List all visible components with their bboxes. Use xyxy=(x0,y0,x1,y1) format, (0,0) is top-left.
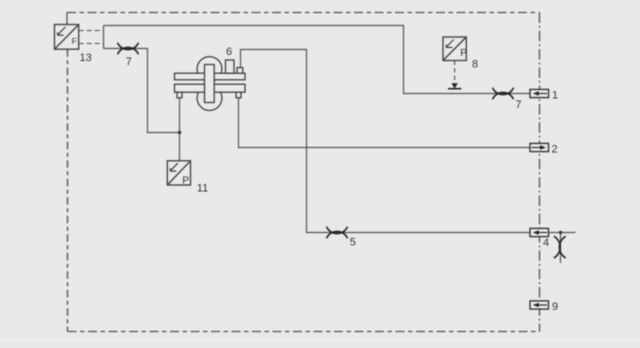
pressure sensor P 8 xyxy=(443,37,466,61)
machine boundary right (dash-dot) xyxy=(539,13,541,332)
svg-text:P: P xyxy=(460,48,467,59)
wire: blow-off drop xyxy=(560,233,562,264)
roots blower 6 (pump group) xyxy=(175,57,246,111)
svg-text:13: 13 xyxy=(80,52,92,64)
foot right xyxy=(236,92,241,98)
piston block xyxy=(205,65,215,103)
casing bar upper xyxy=(175,73,246,80)
throttle valve 7 (right) xyxy=(493,88,514,100)
wire: pump right port down and to port 2 xyxy=(239,98,531,148)
wire: top run to right drop and port 1 xyxy=(104,26,532,94)
outlet stub xyxy=(237,68,243,74)
measuring tap arrow xyxy=(451,83,457,88)
junction port 4 tail xyxy=(559,231,562,234)
port 1 (flange) xyxy=(530,89,549,97)
port stub 6 xyxy=(226,60,235,73)
port 2 (flange) xyxy=(530,143,549,151)
wire: lower run through valve 7 xyxy=(104,49,180,133)
svg-text:1: 1 xyxy=(552,89,558,101)
wire: pump left port down to sensor 11 xyxy=(179,98,181,161)
svg-text:F: F xyxy=(72,36,77,46)
pressure sensor P 11 xyxy=(167,161,190,185)
svg-text:2: 2 xyxy=(552,144,558,156)
flow sensor F 13 xyxy=(55,25,79,50)
throttle valve 7 (left) xyxy=(118,43,139,55)
measuring tap tick xyxy=(448,88,461,90)
wire: port 4 tail to blow-off xyxy=(549,232,576,234)
enclosure border top (dashed) xyxy=(67,12,540,14)
svg-text:7: 7 xyxy=(515,99,521,111)
svg-text:5: 5 xyxy=(350,236,356,248)
svg-text:9: 9 xyxy=(552,301,558,313)
rotor circle bottom xyxy=(197,86,222,111)
signal line sensor13 upper (dashed) xyxy=(79,30,103,32)
svg-text:6: 6 xyxy=(226,46,232,58)
foot left xyxy=(177,92,182,98)
enclosure border bottom (dashed) xyxy=(68,331,540,333)
svg-text:11: 11 xyxy=(197,182,208,194)
wire: suction header end cap xyxy=(103,26,105,49)
signal line sensor13 lower (dashed) xyxy=(79,43,103,45)
throttle valve 5 xyxy=(327,227,348,239)
wire: stub from border to sensor 13 xyxy=(66,13,68,25)
enclosure border left (dashed) xyxy=(67,49,69,331)
svg-text:4: 4 xyxy=(543,237,549,249)
port 4 (flange) xyxy=(530,228,549,236)
rotor circle top xyxy=(197,57,222,82)
svg-text:P: P xyxy=(182,175,189,186)
page edge faint line xyxy=(0,340,640,342)
port 9 (flange) xyxy=(530,301,549,309)
svg-text:8: 8 xyxy=(472,59,478,71)
svg-text:7: 7 xyxy=(126,56,132,68)
blow-off valve (vertical) xyxy=(554,236,566,258)
impulse line sensor 8 (dashed) xyxy=(454,61,456,84)
wire: pump top port to drop and port 4 run xyxy=(241,50,531,233)
casing bar lower xyxy=(175,84,246,92)
junction pump inlet / sensor 11 xyxy=(178,131,181,134)
